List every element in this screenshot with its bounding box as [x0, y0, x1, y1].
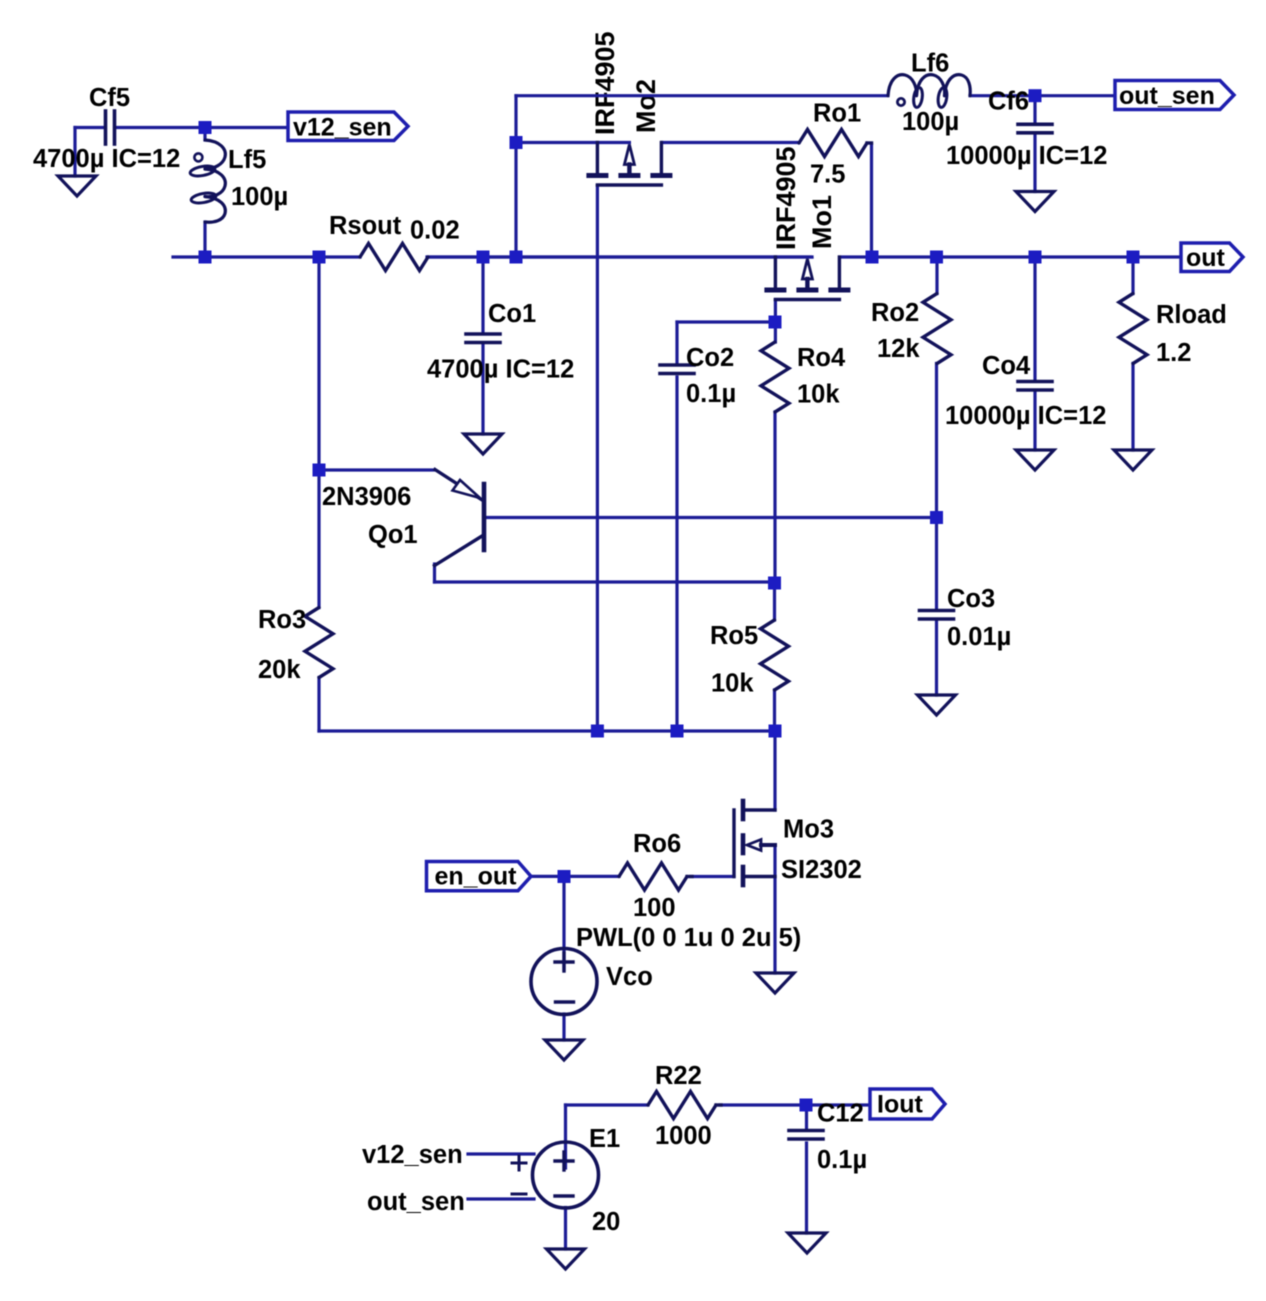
- svg-text:Co2: Co2: [686, 344, 734, 372]
- svg-text:E1: E1: [589, 1125, 620, 1153]
- svg-text:IRF4905: IRF4905: [771, 146, 801, 250]
- svg-text:4700µ IC=12: 4700µ IC=12: [33, 145, 180, 173]
- svg-text:IRF4905: IRF4905: [590, 31, 620, 135]
- svg-text:2N3906: 2N3906: [322, 483, 411, 511]
- svg-text:100µ: 100µ: [231, 183, 288, 211]
- svg-text:10k: 10k: [797, 381, 840, 409]
- svg-text:0.02: 0.02: [410, 217, 460, 245]
- svg-text:Ro2: Ro2: [871, 299, 919, 327]
- svg-text:Iout: Iout: [877, 1091, 923, 1119]
- svg-text:Vco: Vco: [606, 963, 653, 991]
- svg-text:Co4: Co4: [982, 352, 1031, 380]
- svg-text:Cf6: Cf6: [988, 88, 1029, 116]
- svg-text:Rload: Rload: [1156, 301, 1227, 329]
- svg-text:v12_sen: v12_sen: [293, 114, 392, 142]
- svg-text:4700µ IC=12: 4700µ IC=12: [427, 356, 574, 384]
- svg-text:C12: C12: [817, 1100, 864, 1128]
- svg-text:0.1µ: 0.1µ: [817, 1146, 867, 1174]
- svg-text:Rsout: Rsout: [329, 212, 402, 240]
- svg-text:Ro4: Ro4: [797, 344, 846, 372]
- svg-text:100µ: 100µ: [902, 108, 959, 136]
- svg-text:Mo3: Mo3: [783, 816, 834, 844]
- svg-text:20k: 20k: [258, 656, 301, 684]
- svg-text:1.2: 1.2: [1156, 339, 1191, 367]
- svg-text:10000µ IC=12: 10000µ IC=12: [945, 402, 1106, 430]
- svg-text:Lf6: Lf6: [911, 50, 949, 78]
- svg-text:7.5: 7.5: [810, 161, 845, 189]
- svg-text:0.1µ: 0.1µ: [686, 380, 736, 408]
- svg-text:Ro1: Ro1: [813, 100, 861, 128]
- svg-text:en_out: en_out: [435, 863, 518, 891]
- svg-text:Ro5: Ro5: [710, 622, 758, 650]
- svg-text:Qo1: Qo1: [368, 521, 418, 549]
- svg-text:Mo2: Mo2: [631, 79, 661, 133]
- svg-text:12k: 12k: [877, 335, 920, 363]
- svg-text:out: out: [1186, 244, 1226, 272]
- svg-text:out_sen: out_sen: [367, 1188, 465, 1216]
- svg-text:10k: 10k: [711, 670, 754, 698]
- svg-text:100: 100: [633, 894, 676, 922]
- svg-text:SI2302: SI2302: [781, 856, 862, 884]
- svg-text:10000µ IC=12: 10000µ IC=12: [946, 142, 1107, 170]
- svg-text:Co1: Co1: [488, 300, 536, 328]
- svg-text:0.01µ: 0.01µ: [947, 623, 1011, 651]
- svg-text:Ro3: Ro3: [258, 606, 306, 634]
- svg-text:Mo1: Mo1: [807, 195, 837, 249]
- svg-text:Lf5: Lf5: [228, 146, 266, 174]
- svg-text:20: 20: [592, 1208, 620, 1236]
- svg-text:Cf5: Cf5: [89, 84, 130, 112]
- svg-text:1000: 1000: [655, 1122, 712, 1150]
- svg-text:Ro6: Ro6: [633, 830, 681, 858]
- svg-text:R22: R22: [655, 1062, 702, 1090]
- svg-text:out_sen: out_sen: [1119, 82, 1215, 110]
- svg-text:v12_sen: v12_sen: [362, 1141, 463, 1169]
- svg-text:Co3: Co3: [947, 585, 995, 613]
- svg-text:PWL(0 0 1u 0 2u 5): PWL(0 0 1u 0 2u 5): [576, 924, 801, 952]
